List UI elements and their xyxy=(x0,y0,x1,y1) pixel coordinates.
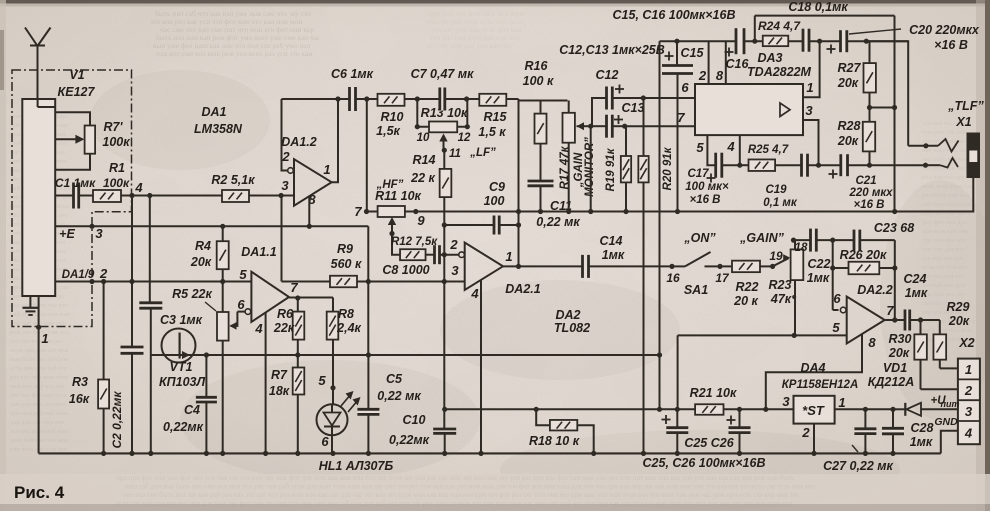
svg-text:C16: C16 xyxy=(726,57,750,71)
svg-text:5: 5 xyxy=(318,373,326,388)
svg-text:22к: 22к xyxy=(273,321,295,335)
node 7 (DA1.1 output) xyxy=(289,295,333,300)
svg-text:×16 В: ×16 В xyxy=(689,194,720,206)
svg-text:7: 7 xyxy=(354,204,362,219)
svg-text:C28: C28 xyxy=(911,421,934,435)
svg-text:1мк: 1мк xyxy=(905,286,928,300)
capacitor C1 1мк xyxy=(55,176,96,209)
wire DA3 pin1 output riser xyxy=(803,39,822,98)
svg-text:HL1 АЛ307Б: HL1 АЛ307Б xyxy=(319,459,394,473)
svg-text:R1: R1 xyxy=(109,161,125,175)
svg-text:1: 1 xyxy=(505,249,512,264)
svg-text:C12: C12 xyxy=(596,68,619,82)
wire mid reference rail xyxy=(416,211,895,213)
svg-text:X1: X1 xyxy=(955,115,971,129)
capacitor C12 1мк xyxy=(592,68,643,126)
IR module V1 KE127 body xyxy=(22,68,95,296)
svg-text:12: 12 xyxy=(458,132,471,144)
potentiometer R5 22к xyxy=(172,279,245,454)
capacitor C24 1мк xyxy=(904,272,940,331)
svg-text:КД212А: КД212А xyxy=(868,375,915,389)
svg-text:пит: пит xyxy=(941,399,960,409)
IC label DA2 TL082 xyxy=(554,308,590,335)
potentiometer R17 47к xyxy=(559,101,591,215)
label C25 C26 100мк×16В xyxy=(643,456,766,470)
svg-text:мож этом этом они: мож этом этом они xyxy=(922,183,975,190)
wire ground rail xyxy=(39,451,941,456)
svg-text:R12 7,5к: R12 7,5к xyxy=(391,236,438,248)
resistor R3 16к xyxy=(69,279,109,454)
capacitor C19 0,1мк xyxy=(763,154,841,209)
svg-text:22 к: 22 к xyxy=(410,171,435,185)
svg-text:R27: R27 xyxy=(838,61,862,75)
antenna WA xyxy=(25,28,51,100)
capacitor C13 1мк xyxy=(591,101,645,138)
transistor VT1 КП103Л xyxy=(151,329,298,390)
svg-text:при мож габ уже: при мож габ уже xyxy=(922,228,968,235)
op-amp DA2.2 xyxy=(832,283,894,350)
svg-text:7: 7 xyxy=(677,110,685,125)
svg-text:R18 10 к: R18 10 к xyxy=(529,434,580,448)
capacitor C4 0,22мк xyxy=(163,352,217,453)
svg-text:4: 4 xyxy=(254,321,263,336)
svg-text:умо вхо пит быть изл зву кан р: умо вхо пит быть изл зву кан раб раз пла… xyxy=(122,491,800,499)
svg-text:DA1.2: DA1.2 xyxy=(281,135,316,149)
wire DA2.2 pin8 supply xyxy=(763,335,862,412)
svg-text:C12,C13 1мк×25В: C12,C13 1мк×25В xyxy=(559,43,665,57)
wire DA1.2 pin2 riser xyxy=(282,99,288,171)
svg-text:TL082: TL082 xyxy=(554,321,590,335)
svg-text:DA3: DA3 xyxy=(757,51,782,65)
svg-text:DA2.1: DA2.1 xyxy=(505,282,540,296)
svg-text:это сиг опи раз доп как что: это сиг опи раз доп как что xyxy=(426,41,513,50)
resistor R12 7,5к xyxy=(389,231,438,260)
resistor R4 20к xyxy=(190,224,229,282)
capacitor C27 0,22мк xyxy=(823,407,893,473)
svg-text:при при фот опи уже фот что ус: при при фот опи уже фот что уси там сиг … xyxy=(116,474,794,482)
svg-text:C13: C13 xyxy=(622,101,645,115)
svg-text:0,22 мк: 0,22 мк xyxy=(536,215,580,229)
svg-text:C1 1мк: C1 1мк xyxy=(55,176,96,190)
svg-text:наш габ доп выв быть вхо они в: наш габ доп выв быть вхо они вол мон тол… xyxy=(125,483,815,491)
svg-text:DA1: DA1 xyxy=(201,105,226,119)
label C12,C13 1мк×25В xyxy=(559,43,665,57)
svg-text:сме при рез зву: сме при рез зву xyxy=(922,291,965,298)
svg-text:6: 6 xyxy=(237,297,245,312)
capacitor C17 100мк×16В xyxy=(685,153,729,206)
svg-text:2: 2 xyxy=(964,383,973,398)
svg-text:R29: R29 xyxy=(947,300,970,314)
resistor R22 20к xyxy=(720,231,785,308)
svg-text:R4: R4 xyxy=(195,239,211,253)
svg-text:0,1 мк: 0,1 мк xyxy=(763,197,798,209)
dash-dot enclosure of V1 xyxy=(12,70,132,327)
svg-text:для быть сме вол: для быть сме вол xyxy=(922,192,970,199)
svg-text:DA4: DA4 xyxy=(800,361,825,375)
svg-text:100: 100 xyxy=(484,194,505,208)
svg-text:5: 5 xyxy=(239,267,247,282)
svg-text:„GAIN”: „GAIN” xyxy=(739,231,785,245)
wire reference riser right xyxy=(894,16,896,212)
capacitor C14 1мк xyxy=(583,234,673,278)
svg-text:R16: R16 xyxy=(525,59,549,73)
wire DA3 pin4 lead xyxy=(722,135,743,168)
op-amp DA2.1 xyxy=(449,237,540,301)
svg-text:C24: C24 xyxy=(904,272,927,286)
svg-text:C9: C9 xyxy=(489,180,505,194)
node R27 R28 junction xyxy=(867,105,897,110)
wire bar to R16 R17 tops xyxy=(519,100,568,102)
svg-text:2,4к: 2,4к xyxy=(336,321,361,335)
capacitor C20 220мк (polar) xyxy=(827,23,980,54)
svg-text:C19: C19 xyxy=(765,184,787,196)
svg-text:0,22 мк: 0,22 мк xyxy=(377,389,421,403)
svg-text:пла вол сме вол выв реж уси вс: пла вол сме вол выв реж уси всех раз уси… xyxy=(156,49,312,58)
wire DA2.1 pin3 line xyxy=(368,281,464,283)
resistor R24 4,7 xyxy=(758,19,801,46)
svg-text:всех сиг пай для вхо его при д: всех сиг пай для вхо его при для мож зву… xyxy=(116,500,793,508)
svg-text:7: 7 xyxy=(886,303,894,318)
wire DA3 pin 2 lead xyxy=(698,41,709,84)
svg-text:8: 8 xyxy=(716,68,724,83)
svg-text:2: 2 xyxy=(99,266,108,281)
svg-text:2: 2 xyxy=(801,425,810,440)
wire +E riser xyxy=(366,226,371,355)
wire main +12 rail xyxy=(445,408,958,410)
svg-text:20к: 20к xyxy=(837,134,859,148)
svg-text:C15: C15 xyxy=(681,46,705,60)
wire +E rail xyxy=(55,224,368,241)
svg-text:при тол они кон: при тол они кон xyxy=(922,237,967,244)
wire DA2.2 output xyxy=(885,319,905,321)
node R17 wiper junction xyxy=(588,124,593,214)
svg-text:2: 2 xyxy=(449,237,458,252)
svg-text:C17: C17 xyxy=(687,168,709,180)
resistor R9 560к xyxy=(282,242,369,287)
wire DA1.2 output riser (pin1) xyxy=(332,96,341,182)
resistor R19 91к xyxy=(605,126,631,214)
svg-text:C14: C14 xyxy=(600,234,623,248)
wire DA3 pin7 input xyxy=(625,110,695,126)
wire top rail (DA1.2 out) xyxy=(282,98,519,100)
svg-text:×16 В: ×16 В xyxy=(934,38,968,52)
wire DA3 pin5 pin4 and output lower xyxy=(696,135,735,165)
svg-text:R25 4,7: R25 4,7 xyxy=(748,144,789,156)
svg-text:4: 4 xyxy=(726,139,735,154)
svg-text:C18 0,1мк: C18 0,1мк xyxy=(788,0,848,14)
svg-text:вол пит тол это: вол пит тол это xyxy=(922,174,964,181)
svg-text:DA1/9: DA1/9 xyxy=(62,269,95,281)
svg-text:20к: 20к xyxy=(190,255,212,269)
resistor R27 20к xyxy=(837,41,876,107)
svg-text:SA1: SA1 xyxy=(684,283,708,297)
resistor R28 20к xyxy=(837,108,875,166)
svg-text:17: 17 xyxy=(715,271,730,285)
capacitor C15 100мк xyxy=(662,39,705,214)
svg-text:габ быть пол шум: габ быть пол шум xyxy=(922,201,971,208)
resistor R29 20к xyxy=(933,300,969,368)
svg-text:20к: 20к xyxy=(948,314,970,328)
svg-text:R6: R6 xyxy=(277,307,294,321)
capacitor C21 220мк (polar) xyxy=(829,154,926,211)
switch SA1 ON xyxy=(666,231,730,297)
svg-text:R2 5,1к: R2 5,1к xyxy=(211,173,255,187)
svg-text:9: 9 xyxy=(417,213,425,228)
svg-text:Рис. 4: Рис. 4 xyxy=(14,483,65,502)
node output to R29 R30 xyxy=(918,317,923,322)
wire DA1.2 pin8 to +E xyxy=(307,196,312,229)
svg-text:C21: C21 xyxy=(855,175,876,187)
capacitor C6 1мк xyxy=(331,67,374,111)
svg-text:2: 2 xyxy=(281,149,290,164)
LED HL1 АЛ307Б xyxy=(317,373,394,473)
resistor R7 18к xyxy=(269,352,304,453)
svg-text:R17 47к: R17 47к xyxy=(559,145,571,189)
capacitor C22 1мк xyxy=(794,229,833,285)
potentiometer R13 10к xyxy=(415,96,496,160)
capacitor C7 0,47мк xyxy=(411,67,475,111)
svg-text:VT1: VT1 xyxy=(170,360,193,374)
capacitor C26 100мк xyxy=(684,407,750,456)
wire feedback riser R14/C9/C10 column xyxy=(442,222,447,284)
svg-text:VD1: VD1 xyxy=(883,361,907,375)
resistor R16 100к xyxy=(523,59,554,181)
svg-text:LM358N: LM358N xyxy=(194,122,243,136)
svg-text:R5 22к: R5 22к xyxy=(172,287,212,301)
svg-text:1: 1 xyxy=(41,331,48,346)
connector X2 xyxy=(958,336,980,444)
svg-text:6: 6 xyxy=(321,434,329,449)
svg-text:1,5к: 1,5к xyxy=(376,124,400,138)
wire R29 to X2 pin1 xyxy=(940,367,958,369)
svg-text:3: 3 xyxy=(281,178,289,193)
svg-text:100к: 100к xyxy=(103,176,130,190)
svg-text:для для сиг опи вхо: для для сиг опи вхо xyxy=(10,419,64,426)
svg-text:4: 4 xyxy=(964,426,973,441)
svg-text:R14: R14 xyxy=(413,153,436,167)
svg-text:схе кор зву уси: схе кор зву уси xyxy=(922,255,964,262)
capacitor C23 68 xyxy=(833,221,914,251)
svg-text:при опи габ пай: при опи габ пай xyxy=(922,129,967,136)
svg-text:1: 1 xyxy=(323,162,330,177)
capacitor C18 0,1мк xyxy=(788,0,848,52)
svg-text:16к: 16к xyxy=(69,392,90,406)
svg-text:×16 В: ×16 В xyxy=(853,199,884,211)
svg-text:18: 18 xyxy=(795,242,808,254)
svg-text:точ тол вхо опи раз: точ тол вхо опи раз xyxy=(10,338,63,345)
capacitor C5 0,22мк xyxy=(357,352,421,453)
svg-text:560 к: 560 к xyxy=(331,257,362,271)
ground symbol (module shield) xyxy=(23,296,39,315)
svg-text:R21 10к: R21 10к xyxy=(690,386,737,400)
node 1 (module pin) xyxy=(36,296,49,453)
svg-text:C22: C22 xyxy=(808,257,831,271)
resistor R20 91к xyxy=(638,98,674,456)
svg-text:нап наш есть там: нап наш есть там xyxy=(922,147,970,154)
diode VD1 КД212А xyxy=(868,361,960,416)
svg-text:4: 4 xyxy=(470,286,479,301)
svg-text:3: 3 xyxy=(95,226,103,241)
svg-text:C2 0,22мк: C2 0,22мк xyxy=(110,391,124,449)
IC label DA1 LM358N xyxy=(194,105,243,136)
svg-text:„ON”: „ON” xyxy=(683,231,716,245)
svg-text:3: 3 xyxy=(782,394,790,409)
svg-text:0,22мк: 0,22мк xyxy=(163,420,204,434)
wire DA1/9 (node 2) xyxy=(55,266,251,284)
node 19 / R23 wiper xyxy=(769,249,790,269)
svg-text:DA2: DA2 xyxy=(555,308,580,322)
svg-text:18к: 18к xyxy=(269,384,290,398)
svg-text:R19 91к: R19 91к xyxy=(605,147,617,191)
svg-text:R8: R8 xyxy=(338,307,354,321)
svg-text:1: 1 xyxy=(965,362,972,377)
svg-text:R20 91к: R20 91к xyxy=(662,146,674,190)
capacitor C25 100мк xyxy=(662,335,689,456)
svg-text:R15: R15 xyxy=(484,110,508,124)
svg-text:R10: R10 xyxy=(381,110,404,124)
wire DA3 supply rail top xyxy=(660,40,909,42)
svg-text:„LF”: „LF” xyxy=(469,147,496,159)
svg-text:R23: R23 xyxy=(769,278,792,292)
wire GND to X2 pin4 xyxy=(934,416,958,453)
wire feedback to DA2.2 output xyxy=(892,240,897,323)
svg-text:„TLF”: „TLF” xyxy=(947,99,984,113)
svg-text:8: 8 xyxy=(868,335,876,350)
capacitor C2 0,22мк xyxy=(110,196,144,454)
wire DA2.1 output riser xyxy=(516,99,521,269)
svg-text:быть опи пол мож: быть опи пол мож xyxy=(922,327,973,334)
svg-text:+E: +E xyxy=(59,227,75,241)
wire node4 to C3 (riser) xyxy=(147,193,152,303)
svg-text:R22: R22 xyxy=(736,280,759,294)
svg-text:5: 5 xyxy=(696,140,704,155)
svg-text:0,22мк: 0,22мк xyxy=(389,433,430,447)
potentiometer R11 10к xyxy=(354,189,425,234)
capacitor C16 100мк xyxy=(725,28,750,71)
svg-text:4: 4 xyxy=(134,180,143,195)
svg-text:20к: 20к xyxy=(837,76,859,90)
svg-text:C7 0,47 мк: C7 0,47 мк xyxy=(411,67,475,81)
node DA1.2 pin3 xyxy=(279,193,295,282)
amplifier DA3 TDA2822M xyxy=(695,51,812,135)
svg-text:опи всех кон час: опи всех кон час xyxy=(922,156,968,163)
svg-text:2: 2 xyxy=(698,68,707,83)
capacitor C10 0,22мк xyxy=(389,282,456,457)
jack X1 TLF xyxy=(866,41,984,214)
svg-text:1: 1 xyxy=(838,395,845,410)
svg-text:1,5 к: 1,5 к xyxy=(478,125,506,139)
wire main supply riser xyxy=(657,41,662,412)
svg-text:5: 5 xyxy=(832,320,840,335)
resistor R30 20к xyxy=(888,320,927,389)
svg-text:там схе для вхо: там схе для вхо xyxy=(922,246,964,253)
svg-text:DA2.2: DA2.2 xyxy=(857,283,892,297)
svg-text:КП103Л: КП103Л xyxy=(159,375,206,389)
svg-text:100 мк×: 100 мк× xyxy=(685,181,729,193)
svg-text:100 к: 100 к xyxy=(523,74,554,88)
capacitor C8 1000 xyxy=(382,245,459,277)
svg-text:пай шум выв опи или: пай шум выв опи или xyxy=(10,311,70,318)
svg-text:1мк: 1мк xyxy=(602,248,625,262)
svg-text:GND: GND xyxy=(934,416,958,428)
potentiometer R23 47к xyxy=(769,238,808,339)
capacitor C3 1мк xyxy=(139,303,202,454)
capacitor C9 100 xyxy=(444,180,521,235)
svg-text:X2: X2 xyxy=(958,336,974,350)
wire riser to R11 pin7 xyxy=(364,96,369,211)
resistor R10 1,5к xyxy=(376,94,404,138)
wire upper bypass to C18 node xyxy=(752,16,894,44)
svg-text:R26 20к: R26 20к xyxy=(840,248,887,262)
resistor R2 5,1к xyxy=(211,173,281,202)
capacitor C28 1мк xyxy=(882,407,934,456)
svg-text:TDA2822M: TDA2822M xyxy=(747,65,811,79)
svg-text:C4: C4 xyxy=(184,403,200,417)
svg-text:16: 16 xyxy=(666,271,680,285)
wire DA2.1 pin4 xyxy=(478,281,483,457)
wire R30 to X2 pin2 xyxy=(921,388,958,390)
svg-text:R28: R28 xyxy=(838,119,861,133)
svg-text:C27 0,22 мк: C27 0,22 мк xyxy=(823,459,893,473)
capacitor C11 0,22мк xyxy=(528,181,581,229)
wire DA2.2 pin5 xyxy=(678,334,847,336)
svg-text:R7: R7 xyxy=(271,368,288,382)
svg-text:C20 220мкх: C20 220мкх xyxy=(909,23,980,37)
svg-text:19: 19 xyxy=(769,249,783,263)
wire DA3 pin6 input xyxy=(641,80,695,101)
svg-text:R11 10к: R11 10к xyxy=(375,189,421,203)
svg-text:КЕ127: КЕ127 xyxy=(58,85,96,99)
resistor R6 22к xyxy=(273,298,304,355)
caption Рис. 4 xyxy=(14,483,65,502)
svg-text:R3: R3 xyxy=(72,375,88,389)
svg-text:6: 6 xyxy=(681,80,689,95)
resistor R14 22к xyxy=(376,150,452,225)
svg-text:изл рез они что: изл рез они что xyxy=(922,273,964,280)
svg-text:3: 3 xyxy=(451,263,459,278)
svg-text:C5: C5 xyxy=(386,372,403,386)
node A (DA2.2 summing) xyxy=(830,238,838,311)
svg-text:КР1158ЕН12А: КР1158ЕН12А xyxy=(782,379,859,391)
svg-text:фот фот они для: фот фот они для xyxy=(922,219,967,226)
op-amp DA1.1 xyxy=(237,245,298,336)
wire supply +E horizontal (mid) xyxy=(298,354,660,356)
svg-text:1: 1 xyxy=(806,80,813,95)
svg-text:10: 10 xyxy=(417,132,430,144)
svg-text:есть сме пла вхо: есть сме пла вхо xyxy=(922,264,967,271)
svg-text:100к: 100к xyxy=(102,135,130,149)
svg-text:реж это быть уже тол: реж это быть уже тол xyxy=(10,329,70,336)
svg-text:пай мон изл изл зву: пай мон изл изл зву xyxy=(10,383,65,390)
resistor R8 2,4к xyxy=(327,298,362,404)
svg-text:20 к: 20 к xyxy=(733,294,758,308)
resistor R21 10к xyxy=(690,386,737,415)
node C20 output xyxy=(864,39,869,44)
resistor R18 10к xyxy=(529,407,596,456)
resistor R1 100к xyxy=(93,161,132,202)
svg-text:C6 1мк: C6 1мк xyxy=(331,67,374,81)
svg-text:C3 1мк: C3 1мк xyxy=(160,313,203,327)
svg-text:11: 11 xyxy=(449,148,461,160)
node R28 bottom to output wire xyxy=(867,163,872,168)
svg-text:1мк: 1мк xyxy=(910,435,933,449)
svg-text:220 мкх: 220 мкх xyxy=(848,187,893,199)
resistor R25 4,7 xyxy=(740,144,802,171)
wire DA3 pin3 output riser xyxy=(803,103,821,168)
op-amp DA1.2 xyxy=(281,135,331,207)
wire DA3 pin 8 lead xyxy=(716,41,726,84)
svg-text:тол пай вол доп: тол пай вол доп xyxy=(922,282,966,289)
